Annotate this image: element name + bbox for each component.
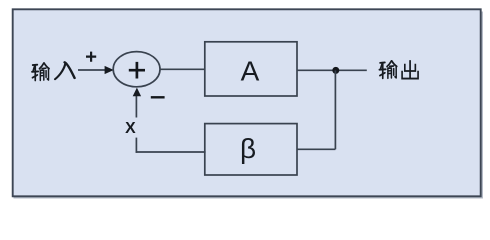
- minus sign below-right of junction: [151, 96, 165, 98]
- wire: feedback rise below X label: [135, 138, 137, 153]
- plus sign above input arrow: [86, 52, 96, 62]
- node: junction dot: [332, 67, 339, 74]
- block A: [205, 42, 297, 96]
- wire: block B left feedback run: [136, 151, 206, 153]
- input arrowhead: [105, 66, 114, 74]
- feedback arrowhead into junction bottom: [133, 88, 141, 97]
- svg-text:β: β: [240, 133, 256, 164]
- summing junction circle: [113, 52, 160, 87]
- wire: junction to block A: [160, 68, 205, 70]
- wire: block A to output: [297, 69, 367, 71]
- label input 输: [32, 63, 49, 80]
- wire: vertical feedback drop: [334, 70, 336, 149]
- panel: [13, 9, 481, 196]
- label input 入: [55, 62, 75, 79]
- label output 出: [402, 61, 418, 78]
- svg-text:X: X: [125, 120, 136, 137]
- wire: feedback rise above X label: [135, 96, 137, 118]
- block beta: [205, 124, 297, 175]
- label output 输: [379, 61, 396, 78]
- svg-text:A: A: [241, 55, 260, 86]
- panel shadow right/bottom: [14, 12, 483, 198]
- wire: feedback into block B right: [297, 148, 335, 150]
- wire: input arrow shaft: [78, 69, 106, 71]
- plus sign inside summing junction: [129, 62, 145, 79]
